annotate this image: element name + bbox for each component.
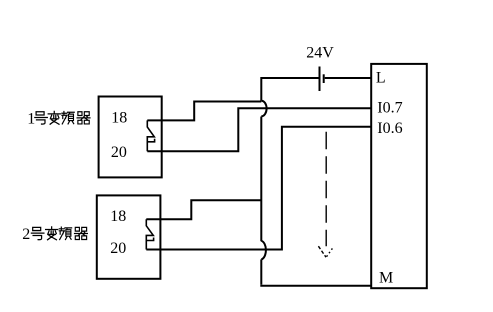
battery B1: short plate [323,74,325,83]
svg-text:1: 1 [27,110,35,127]
svg-text:18: 18 [110,208,126,225]
inverter 1 box [99,97,162,178]
svg-text:M: M [379,270,393,287]
wire: inverter1 pin18 run to 24V rail [147,102,261,121]
svg-text:24V: 24V [306,44,334,61]
dashed arrow (down) [318,132,333,257]
inverter 2 box [97,195,161,278]
label 2号变频器 [22,226,87,243]
svg-text:L: L [376,70,386,87]
svg-text:I0.6: I0.6 [377,120,402,137]
wire: 24V rail vertical upper segment [260,77,262,101]
PLC block [371,64,427,288]
connector symbol (inverter 1 pins 18/20) [147,120,154,151]
wire: inverter2 pin18 run to 24V rail [146,200,261,219]
battery B1: long plate [319,67,321,92]
svg-text:18: 18 [111,109,127,126]
wire: 24V rail corner to battery long plate [261,77,318,79]
svg-text:20: 20 [111,144,127,161]
wire hop: rail over I0.7 wire [261,101,266,117]
wire hop: rail over inverter2 pin20 wire [261,241,266,260]
wire: 24V rail vertical lower segment [260,259,262,284]
svg-text:20: 20 [110,240,126,257]
wire: bottom run to PLC terminal M [260,285,371,287]
wire: 24V rail vertical middle segment [260,117,262,242]
svg-text:I0.7: I0.7 [377,99,402,116]
wire: inverter2 pin20 to PLC input I0.6 [146,127,371,250]
label 1号变频器 [27,110,90,127]
wire: inverter1 pin20 to PLC input I0.7 [147,108,371,151]
wire: battery short plate to PLC terminal L [325,77,372,79]
connector symbol (inverter 2 pins 18/20) [146,219,153,249]
svg-text:2: 2 [22,226,30,243]
